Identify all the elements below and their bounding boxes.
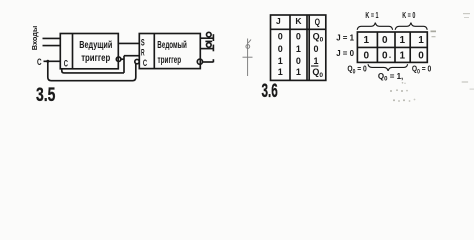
svg-text:Q: Q (315, 17, 320, 28)
svg-text:J: J (276, 16, 281, 26)
svg-text:1: 1 (400, 50, 406, 61)
svg-text:0: 0 (296, 32, 301, 42)
svg-text:1: 1 (400, 35, 406, 46)
svg-text:0: 0 (278, 32, 283, 42)
svg-text:триггер: триггер (81, 53, 110, 64)
svg-text:K: K (295, 16, 302, 26)
svg-text:1: 1 (364, 35, 370, 46)
svg-text:0: 0 (382, 35, 388, 46)
svg-text:0: 0 (418, 50, 424, 61)
svg-text:триггер: триггер (158, 55, 182, 66)
svg-text:0: 0 (364, 50, 370, 61)
svg-text:1: 1 (296, 67, 301, 77)
svg-text:1: 1 (313, 56, 318, 66)
svg-text:1: 1 (278, 56, 283, 66)
svg-text:C: C (64, 58, 68, 68)
svg-text:3.5: 3.5 (36, 84, 56, 106)
svg-text:1: 1 (296, 44, 301, 54)
svg-text:S: S (141, 37, 145, 47)
svg-text:Ведомый: Ведомый (157, 40, 187, 51)
svg-text:0: 0 (278, 44, 283, 54)
svg-text:0: 0 (296, 56, 301, 66)
svg-text:K = 1: K = 1 (365, 10, 378, 20)
svg-text:1: 1 (278, 67, 283, 77)
svg-text:R: R (141, 47, 145, 57)
svg-text:1: 1 (418, 35, 424, 46)
svg-text:0: 0 (382, 50, 388, 61)
svg-text:C: C (37, 57, 42, 68)
svg-text:K = 0: K = 0 (402, 10, 415, 20)
svg-text:C: C (143, 58, 147, 68)
svg-text:0: 0 (313, 44, 318, 54)
svg-text:Входы: Входы (30, 26, 39, 51)
svg-text:J = 1: J = 1 (336, 33, 354, 43)
svg-text:Ведущий: Ведущий (79, 40, 112, 51)
svg-text:3.6: 3.6 (262, 81, 278, 102)
svg-text:J = 0: J = 0 (336, 48, 354, 58)
